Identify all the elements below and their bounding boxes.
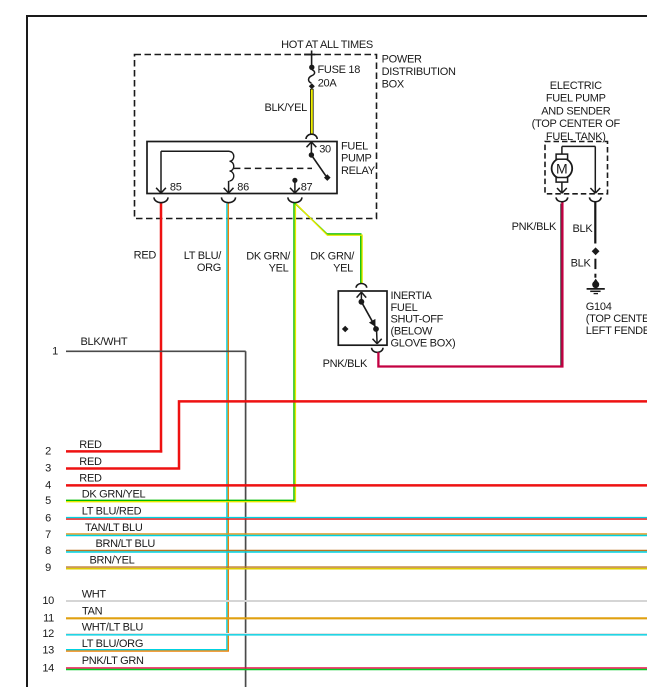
svg-text:12: 12 <box>42 628 54 640</box>
svg-text:ORG: ORG <box>197 262 221 274</box>
svg-text:FUEL TANK): FUEL TANK) <box>546 131 606 143</box>
svg-text:14: 14 <box>42 663 54 675</box>
svg-text:RED: RED <box>134 250 157 262</box>
svg-text:HOT AT ALL TIMES: HOT AT ALL TIMES <box>281 39 373 51</box>
svg-text:1: 1 <box>52 345 58 357</box>
svg-text:13: 13 <box>42 644 54 656</box>
svg-text:(TOP CENTER OF: (TOP CENTER OF <box>532 118 621 130</box>
svg-text:86: 86 <box>237 181 249 193</box>
svg-text:PNK/BLK: PNK/BLK <box>512 221 557 233</box>
svg-text:BOX: BOX <box>382 79 405 91</box>
svg-text:POWER: POWER <box>382 54 422 66</box>
svg-text:LT BLU/RED: LT BLU/RED <box>82 506 142 518</box>
svg-text:5: 5 <box>45 495 51 507</box>
svg-text:RELAY: RELAY <box>341 165 376 177</box>
svg-text:SHUT-OFF: SHUT-OFF <box>391 314 444 326</box>
svg-text:BRN/YEL: BRN/YEL <box>90 554 135 566</box>
svg-text:87: 87 <box>301 182 313 194</box>
svg-text:INERTIA: INERTIA <box>391 290 433 302</box>
svg-text:9: 9 <box>45 562 51 574</box>
svg-text:(TOP CENTER: (TOP CENTER <box>586 313 647 325</box>
svg-text:YEL: YEL <box>269 262 289 274</box>
svg-text:RED: RED <box>79 439 102 451</box>
svg-text:FUEL PUMP: FUEL PUMP <box>546 93 606 105</box>
svg-text:AND SENDER: AND SENDER <box>541 105 610 117</box>
svg-text:3: 3 <box>45 463 51 475</box>
svg-text:DK GRN/: DK GRN/ <box>246 251 291 263</box>
svg-text:GLOVE BOX): GLOVE BOX) <box>391 338 456 350</box>
svg-text:BRN/LT BLU: BRN/LT BLU <box>96 538 156 550</box>
svg-text:8: 8 <box>45 545 51 557</box>
svg-text:30: 30 <box>319 144 331 156</box>
svg-text:DK GRN/: DK GRN/ <box>310 251 355 263</box>
svg-text:FUSE 18: FUSE 18 <box>318 64 361 76</box>
svg-text:FUEL: FUEL <box>391 302 418 314</box>
svg-text:TAN: TAN <box>82 606 103 618</box>
svg-text:RED: RED <box>79 456 102 468</box>
svg-text:M: M <box>556 161 567 177</box>
svg-text:BLK: BLK <box>571 257 592 269</box>
svg-text:11: 11 <box>43 612 54 624</box>
svg-text:6: 6 <box>45 512 51 524</box>
svg-text:PNK/LT GRN: PNK/LT GRN <box>82 655 144 667</box>
svg-text:YEL: YEL <box>333 262 353 274</box>
svg-text:2: 2 <box>45 445 51 457</box>
svg-text:20A: 20A <box>318 78 338 90</box>
svg-text:LT BLU/: LT BLU/ <box>184 250 222 262</box>
svg-text:WHT: WHT <box>82 589 107 601</box>
svg-text:RED: RED <box>79 473 102 485</box>
svg-text:ELECTRIC: ELECTRIC <box>550 80 602 92</box>
svg-text:TAN/LT BLU: TAN/LT BLU <box>85 522 143 534</box>
svg-text:DK GRN/YEL: DK GRN/YEL <box>82 489 146 501</box>
svg-text:DISTRIBUTION: DISTRIBUTION <box>382 66 456 78</box>
svg-text:4: 4 <box>45 479 51 491</box>
svg-text:G104: G104 <box>586 301 612 313</box>
svg-text:LT BLU/ORG: LT BLU/ORG <box>82 638 143 650</box>
svg-text:BLK/YEL: BLK/YEL <box>264 102 307 114</box>
svg-text:7: 7 <box>45 529 51 541</box>
svg-text:85: 85 <box>170 182 182 194</box>
svg-text:FUEL: FUEL <box>341 140 368 152</box>
svg-text:BLK/WHT: BLK/WHT <box>81 336 128 348</box>
svg-text:WHT/LT BLU: WHT/LT BLU <box>82 622 144 634</box>
svg-text:PUMP: PUMP <box>341 153 372 165</box>
svg-text:LEFT FENDER: LEFT FENDER <box>586 325 647 337</box>
svg-text:(BELOW: (BELOW <box>391 326 434 338</box>
svg-text:10: 10 <box>42 595 54 607</box>
svg-text:BLK: BLK <box>573 223 594 235</box>
svg-text:PNK/BLK: PNK/BLK <box>323 358 368 370</box>
